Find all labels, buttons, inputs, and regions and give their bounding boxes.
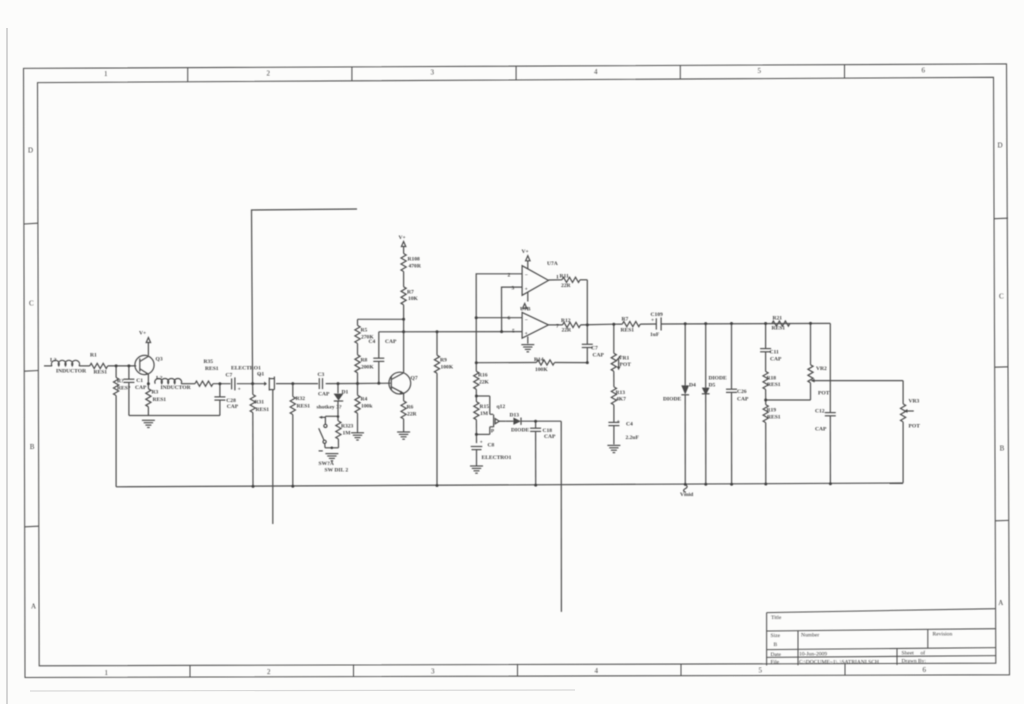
- svg-text:+: +: [238, 387, 241, 393]
- svg-text:R11: R11: [560, 274, 569, 280]
- svg-text:CAP: CAP: [815, 427, 827, 433]
- svg-text:C12: C12: [815, 409, 825, 415]
- svg-text:VR1: VR1: [619, 356, 630, 362]
- svg-text:SW?A: SW?A: [319, 461, 334, 467]
- svg-text:6: 6: [923, 666, 927, 674]
- svg-text:100k: 100k: [361, 404, 373, 410]
- svg-text:+: +: [525, 287, 528, 293]
- svg-text:22R: 22R: [561, 283, 572, 289]
- svg-text:R1: R1: [90, 353, 97, 359]
- svg-text:V+: V+: [399, 235, 406, 241]
- svg-text:6: 6: [508, 316, 511, 322]
- svg-text:1: 1: [104, 70, 108, 78]
- svg-text:Vmid: Vmid: [680, 492, 694, 498]
- svg-text:CAP: CAP: [385, 339, 397, 345]
- svg-text:D4: D4: [689, 383, 696, 389]
- svg-text:p: p: [491, 428, 494, 434]
- svg-text:VR3: VR3: [909, 399, 920, 405]
- svg-text:C4: C4: [626, 422, 633, 428]
- svg-text:+: +: [617, 419, 620, 425]
- svg-text:22R: 22R: [562, 328, 573, 334]
- svg-text:R7: R7: [622, 317, 629, 323]
- svg-text:RES1: RES1: [767, 415, 781, 421]
- svg-text:C3: C3: [318, 372, 325, 378]
- svg-text:POT: POT: [620, 362, 632, 368]
- svg-text:File: File: [771, 660, 780, 666]
- svg-text:U7A: U7A: [547, 261, 558, 267]
- svg-text:INDUCTOR: INDUCTOR: [56, 369, 87, 375]
- svg-text:Q1: Q1: [257, 372, 264, 378]
- svg-text:shotkey 3?: shotkey 3?: [317, 405, 342, 411]
- svg-text:C: C: [999, 293, 1004, 301]
- svg-text:470R: 470R: [409, 264, 422, 270]
- svg-text:D: D: [998, 142, 1003, 150]
- svg-text:1: 1: [105, 669, 109, 677]
- svg-text:C26: C26: [737, 389, 747, 395]
- svg-text:3: 3: [431, 69, 435, 77]
- svg-text:5: 5: [512, 329, 515, 335]
- svg-text:1uF: 1uF: [650, 332, 660, 338]
- svg-text:CAP: CAP: [770, 357, 782, 363]
- svg-text:L?: L?: [50, 358, 57, 364]
- svg-text:+: +: [525, 331, 528, 337]
- svg-text:−: −: [525, 318, 528, 324]
- svg-text:DIODE: DIODE: [663, 397, 681, 403]
- svg-text:RES?: RES?: [117, 386, 131, 392]
- svg-text:D: D: [28, 147, 33, 155]
- svg-text:SW DIL 2: SW DIL 2: [325, 468, 349, 474]
- svg-text:DIODE: DIODE: [709, 376, 727, 382]
- svg-text:V+: V+: [139, 331, 146, 337]
- svg-text:of: of: [921, 650, 926, 657]
- svg-text:CAP: CAP: [135, 385, 147, 391]
- svg-text:C:\DOCUME~1\..\SATRIANI.SCH: C:\DOCUME~1\..\SATRIANI.SCH: [799, 659, 879, 665]
- svg-text:INDUCTOR: INDUCTOR: [161, 385, 192, 391]
- svg-text:4K7: 4K7: [616, 397, 626, 403]
- svg-text:Q3: Q3: [156, 357, 163, 363]
- svg-text:R108: R108: [408, 257, 421, 263]
- svg-text:A: A: [998, 599, 1003, 607]
- svg-text:V+: V+: [522, 249, 529, 255]
- svg-text:3: 3: [512, 286, 515, 292]
- svg-text:L?: L?: [156, 376, 163, 382]
- svg-text:R21: R21: [773, 316, 783, 322]
- svg-text:D13: D13: [510, 413, 520, 419]
- svg-text:CAP: CAP: [544, 434, 556, 440]
- svg-text:D5: D5: [709, 383, 716, 389]
- svg-text:1M: 1M: [343, 431, 352, 437]
- svg-text:R9: R9: [440, 358, 447, 364]
- svg-text:Size: Size: [771, 633, 781, 639]
- svg-text:R14: R14: [534, 357, 544, 363]
- svg-text:R323: R323: [341, 424, 354, 430]
- svg-text:10-Jun-2009: 10-Jun-2009: [799, 652, 827, 658]
- svg-text:R5: R5: [361, 328, 368, 334]
- svg-text:q12: q12: [497, 404, 506, 410]
- svg-text:R16: R16: [478, 373, 488, 379]
- svg-text:POT: POT: [909, 424, 921, 430]
- svg-text:C109: C109: [651, 312, 664, 318]
- svg-text:Sheet: Sheet: [902, 651, 915, 657]
- svg-text:R32: R32: [296, 396, 306, 402]
- svg-text:POT: POT: [818, 391, 830, 397]
- svg-text:A: A: [31, 603, 36, 611]
- svg-text:CAP: CAP: [227, 404, 239, 410]
- svg-text:Revision: Revision: [933, 632, 953, 638]
- svg-text:R15: R15: [480, 404, 490, 410]
- svg-text:R4: R4: [361, 397, 368, 403]
- svg-text:Q7: Q7: [411, 376, 418, 382]
- svg-text:22K: 22K: [479, 380, 490, 386]
- svg-text:R18: R18: [767, 376, 777, 382]
- svg-text:22R: 22R: [407, 412, 418, 418]
- svg-text:D1: D1: [342, 390, 349, 396]
- svg-text:+: +: [651, 318, 654, 324]
- svg-text:RES1: RES1: [256, 407, 270, 413]
- svg-text:100K: 100K: [441, 365, 454, 371]
- svg-text:Drawn By:: Drawn By:: [902, 658, 927, 664]
- svg-text:R19: R19: [767, 408, 777, 414]
- svg-text:B: B: [1000, 445, 1005, 453]
- svg-text:C: C: [29, 300, 34, 308]
- svg-text:1M: 1M: [480, 411, 489, 417]
- svg-text:CAP: CAP: [593, 353, 605, 359]
- svg-text:R?: R?: [117, 379, 124, 385]
- svg-text:4: 4: [595, 667, 599, 675]
- svg-text:C4: C4: [369, 339, 376, 345]
- svg-text:7: 7: [556, 324, 559, 330]
- svg-text:B: B: [774, 642, 778, 648]
- svg-text:5: 5: [758, 67, 762, 75]
- svg-text:4: 4: [594, 68, 598, 76]
- svg-text:R7: R7: [407, 290, 414, 296]
- svg-text:3: 3: [431, 668, 435, 676]
- svg-text:Title: Title: [771, 615, 782, 621]
- svg-text:RES1: RES1: [772, 326, 786, 332]
- svg-text:+: +: [480, 440, 483, 446]
- svg-text:R13: R13: [616, 390, 626, 396]
- svg-text:6: 6: [922, 66, 926, 74]
- svg-text:CAP: CAP: [318, 392, 330, 398]
- svg-text:CAP: CAP: [737, 397, 749, 403]
- svg-text:Date: Date: [771, 652, 782, 658]
- svg-text:R8: R8: [361, 358, 368, 364]
- svg-text:VR2: VR2: [816, 366, 827, 372]
- svg-text:RES1: RES1: [297, 404, 311, 410]
- svg-text:100K: 100K: [535, 367, 548, 373]
- svg-text:2.2uF: 2.2uF: [626, 435, 640, 441]
- svg-text:C11: C11: [770, 350, 779, 356]
- svg-text:RES1: RES1: [153, 397, 167, 403]
- svg-text:−: −: [525, 272, 528, 278]
- svg-text:5: 5: [759, 666, 763, 674]
- svg-text:U7B: U7B: [520, 307, 531, 313]
- svg-text:R12: R12: [561, 318, 571, 324]
- svg-text:C7: C7: [226, 373, 233, 379]
- svg-text:ELECTRO1: ELECTRO1: [482, 455, 512, 461]
- svg-text:200K: 200K: [361, 365, 374, 371]
- svg-text:B: B: [30, 443, 35, 451]
- svg-text:C8: C8: [488, 443, 495, 449]
- svg-text:DIODE: DIODE: [511, 428, 529, 434]
- svg-text:Number: Number: [801, 633, 819, 639]
- svg-text:2: 2: [267, 668, 271, 676]
- svg-text:RES1: RES1: [94, 370, 108, 376]
- svg-text:C1: C1: [136, 378, 143, 384]
- svg-text:R35: R35: [204, 359, 214, 365]
- svg-text:10K: 10K: [408, 296, 419, 302]
- svg-text:C28: C28: [226, 398, 236, 404]
- svg-text:C7: C7: [591, 346, 598, 352]
- svg-text:2: 2: [267, 70, 271, 78]
- svg-text:2: 2: [508, 273, 511, 279]
- svg-text:RES1: RES1: [621, 328, 635, 334]
- svg-text:RES1: RES1: [205, 366, 219, 372]
- svg-text:R3: R3: [152, 390, 159, 396]
- svg-text:R6: R6: [407, 405, 414, 411]
- svg-text:R31: R31: [255, 400, 265, 406]
- svg-text:RES1: RES1: [767, 382, 781, 388]
